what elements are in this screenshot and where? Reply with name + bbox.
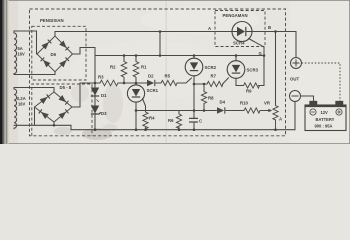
svg-text:D5 - 8: D5 - 8 xyxy=(60,85,72,90)
SCR4 gate diagonal xyxy=(249,39,265,86)
node B drop to VR xyxy=(275,32,277,106)
battery minus wire xyxy=(301,96,314,104)
wire coil1 top to bridge1 left xyxy=(14,31,37,54)
svg-text:PENGAMAN: PENGAMAN xyxy=(223,13,248,18)
svg-text:12V: 12V xyxy=(321,110,329,115)
output terminal plus xyxy=(291,58,302,69)
junction SCR1 cathode / L1 xyxy=(135,109,138,112)
battery plus dotted wire xyxy=(302,63,341,101)
VR wiper arrow xyxy=(268,109,272,113)
junction SCR2 anode on rail2 xyxy=(193,54,196,57)
smudge stains bottom left xyxy=(82,128,112,140)
svg-text:D2: D2 xyxy=(148,74,154,79)
top rail xyxy=(55,31,232,33)
junction R8 top node xyxy=(203,83,206,86)
svg-text:D6: D6 xyxy=(51,52,57,57)
svg-text:R6: R6 xyxy=(168,118,174,123)
svg-text:0,2A: 0,2A xyxy=(17,96,26,101)
svg-text:B: B xyxy=(268,25,271,30)
junction R2 bottom node xyxy=(123,82,126,85)
junction VR bottom on ground rail xyxy=(274,128,277,131)
svg-text:BATTERY: BATTERY xyxy=(316,117,335,122)
svg-text:A: A xyxy=(208,26,211,31)
wire coil1 bottom to bridge1 bottom xyxy=(14,72,55,75)
rail2 horizontal xyxy=(95,55,264,57)
R6 leads xyxy=(178,111,180,131)
svg-text:C: C xyxy=(199,119,202,124)
svg-text:5A: 5A xyxy=(18,46,23,51)
SCR1 gate to R4 xyxy=(143,99,146,113)
R2 leads xyxy=(123,56,125,84)
SCR1 xyxy=(127,85,144,102)
svg-text:R5: R5 xyxy=(165,74,171,79)
inner dashed box PENGISIAN xyxy=(32,26,86,80)
resistor R9 xyxy=(244,83,260,88)
wire bridge1 right to rail2 xyxy=(73,48,96,56)
bridge rectifier D5-8 xyxy=(35,92,73,122)
svg-text:16V: 16V xyxy=(18,52,26,57)
R7 row xyxy=(194,78,229,84)
svg-text:R9: R9 xyxy=(246,89,252,94)
transformer T2 secondary coil xyxy=(14,88,17,129)
zener D3 xyxy=(91,106,99,114)
scan fold line xyxy=(166,1,167,143)
wire bridge2 right to node line xyxy=(72,83,80,107)
diode D2 xyxy=(147,80,154,86)
junction R8 bottom on L1 xyxy=(203,109,206,112)
junction SCR1 cathode on ground rail xyxy=(135,128,138,131)
node line y83 xyxy=(80,78,192,83)
svg-text:R7: R7 xyxy=(211,74,217,79)
transformer T1 secondary coil xyxy=(14,31,17,74)
junction bridge2 output on lower wire xyxy=(53,124,56,127)
junction top rail / rail2 link xyxy=(159,30,162,33)
svg-text:R1: R1 xyxy=(141,65,147,70)
inner dashed box lower xyxy=(32,84,92,136)
svg-text:R10: R10 xyxy=(240,101,248,106)
junction D3 bottom on ground rail xyxy=(94,128,97,131)
D1 D3 vertical xyxy=(94,56,96,131)
svg-text:VR: VR xyxy=(264,101,271,106)
svg-text:OUT: OUT xyxy=(290,77,299,82)
outer dashed box xyxy=(30,9,286,136)
wire coil2 bottom and bridge2 left xyxy=(14,107,71,125)
resistor R6 xyxy=(176,114,181,128)
svg-text:R2: R2 xyxy=(110,65,116,70)
junction node B on top rail xyxy=(274,30,277,33)
svg-text:R8: R8 xyxy=(208,96,214,101)
junction R1 bottom / SCR1 anode xyxy=(135,82,138,85)
junction R6 bottom on ground rail xyxy=(178,128,181,131)
wire bridge1 top to top rail xyxy=(54,32,56,37)
SCR3 leads xyxy=(236,56,264,86)
junction C bottom on ground rail xyxy=(193,128,196,131)
resistor R2 xyxy=(121,62,127,78)
R8 leads xyxy=(203,84,205,111)
SCR3 xyxy=(227,61,245,79)
L1 line xyxy=(136,110,269,112)
C leads xyxy=(193,84,195,130)
svg-text:D3: D3 xyxy=(101,111,107,116)
link top rail to rail2 xyxy=(159,32,161,56)
svg-text:PENGISIAN: PENGISIAN xyxy=(40,18,64,23)
left binding dark band xyxy=(0,0,3,144)
junction SCR2 cathode node xyxy=(193,83,196,86)
svg-text:R4: R4 xyxy=(149,116,155,121)
resistor R8 xyxy=(201,92,206,104)
SCR1 cathode xyxy=(135,102,137,130)
SCR2 leads xyxy=(193,56,195,85)
resistor R4 xyxy=(143,112,148,129)
minus terminal drop xyxy=(294,102,296,130)
junction D1 node xyxy=(94,82,97,85)
diode D1 xyxy=(91,88,99,96)
R1 leads xyxy=(135,56,137,86)
svg-text:SCR4: SCR4 xyxy=(233,41,245,46)
resistor R5 xyxy=(161,80,177,85)
resistor R1 xyxy=(133,62,139,78)
svg-text:SCR3: SCR3 xyxy=(247,68,259,73)
resistor R3 xyxy=(100,80,118,86)
SCR4 dashed box xyxy=(215,11,265,47)
SCR2 xyxy=(185,58,203,76)
svg-text:SCR1: SCR1 xyxy=(147,88,159,93)
junction R4 bottom on ground rail xyxy=(144,128,147,131)
SCR4 xyxy=(232,22,252,42)
svg-text:D4: D4 xyxy=(220,100,226,105)
junction C top on L1 xyxy=(193,109,196,112)
junction rail2 / gate line xyxy=(263,54,266,57)
page border frame xyxy=(0,0,350,144)
resistor R10 xyxy=(244,108,260,113)
capacitor C xyxy=(189,118,198,122)
junction link bottom on rail2 xyxy=(159,54,162,57)
R4 bottom lead xyxy=(145,128,147,131)
bottom rail xyxy=(71,125,295,129)
potentiometer VR xyxy=(273,106,278,131)
wire SCR4 to + drop xyxy=(252,32,296,58)
diode D4 xyxy=(217,107,224,113)
junction R1 top on rail2 xyxy=(135,54,138,57)
junction R2 top on rail2 xyxy=(123,54,126,57)
svg-text:16V: 16V xyxy=(18,102,26,107)
svg-text:900 : 95A: 900 : 95A xyxy=(315,124,333,129)
svg-text:D1: D1 xyxy=(101,93,107,98)
bridge rectifier D6 xyxy=(37,36,73,72)
resistor R7 xyxy=(207,81,223,86)
svg-text:A: A xyxy=(279,117,282,122)
battery xyxy=(305,101,346,130)
paper background xyxy=(0,0,350,144)
svg-text:SCR2: SCR2 xyxy=(205,65,217,70)
output terminal minus xyxy=(290,91,301,102)
junction SCR3 anode on rail2 xyxy=(235,54,238,57)
svg-text:R3: R3 xyxy=(98,75,104,80)
wire coil2 top to bridge2 top xyxy=(14,88,54,93)
